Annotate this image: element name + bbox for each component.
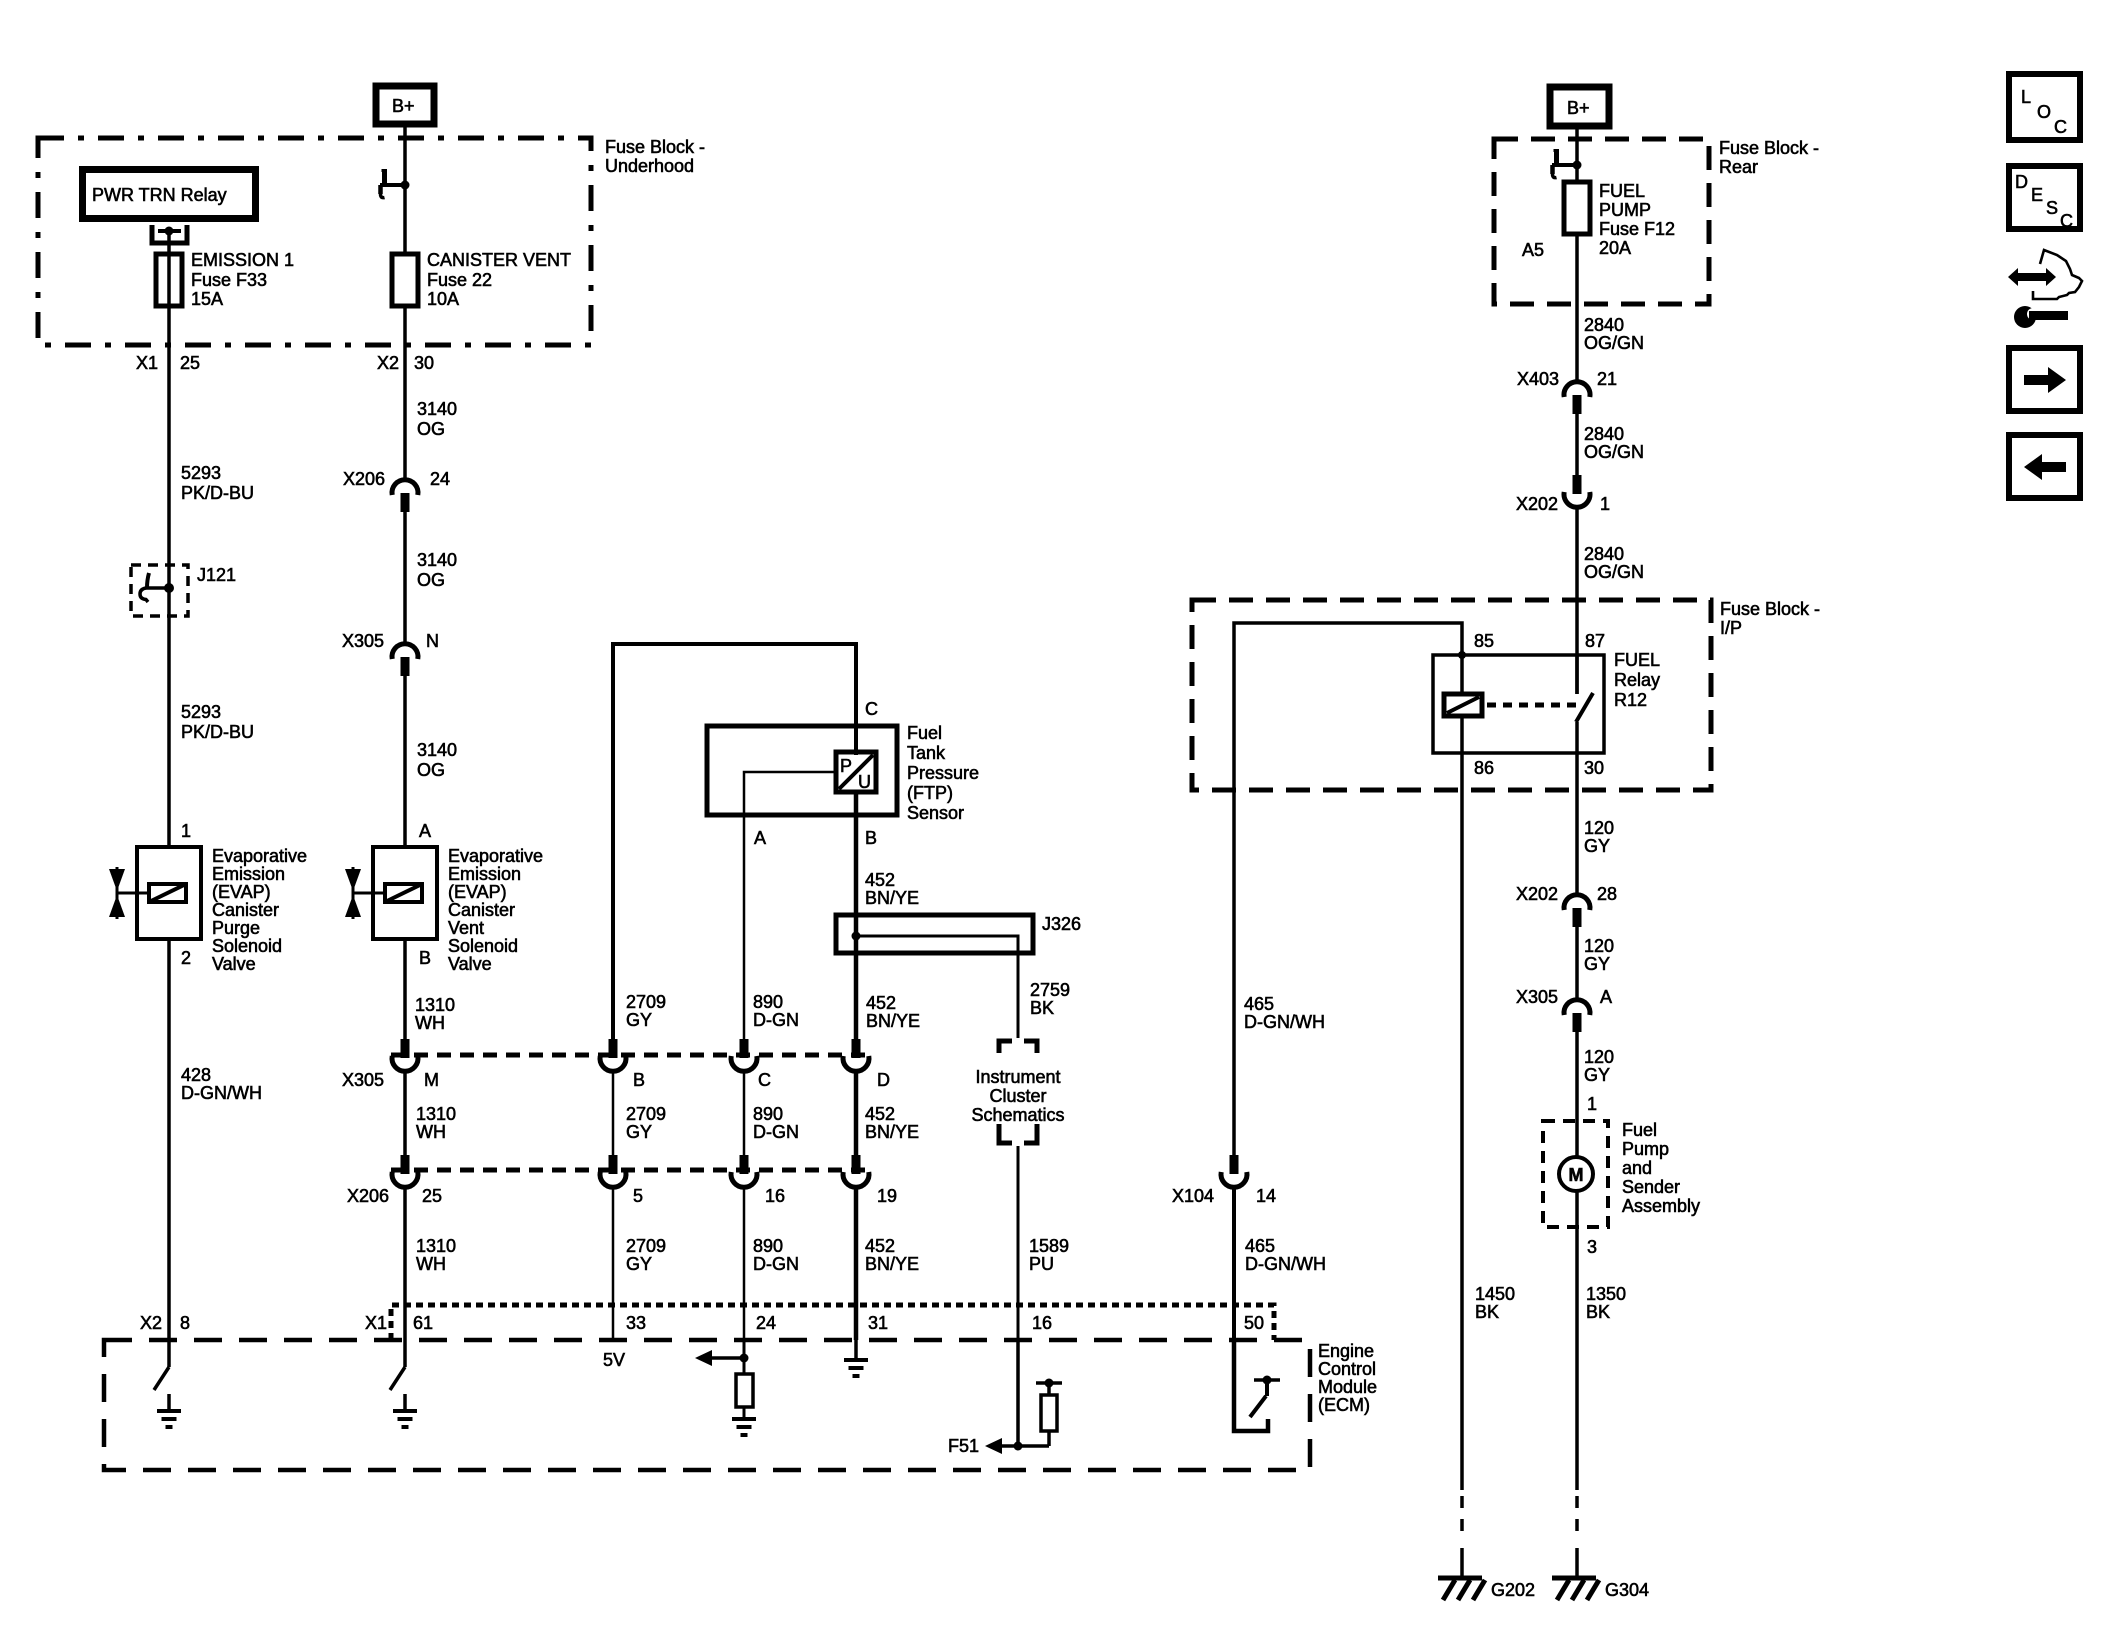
svg-text:120: 120 (1584, 936, 1614, 956)
svg-text:Schematics: Schematics (971, 1105, 1064, 1125)
svg-text:X202: X202 (1516, 494, 1558, 514)
svg-text:Module: Module (1318, 1377, 1377, 1397)
wire 1310 WH segment 1 (403, 939, 407, 1039)
svg-text:Fuel: Fuel (1622, 1120, 1657, 1140)
svg-text:14: 14 (1256, 1186, 1276, 1206)
svg-text:BN/YE: BN/YE (866, 1011, 920, 1031)
svg-text:3140: 3140 (417, 550, 457, 570)
svg-text:X104: X104 (1172, 1186, 1214, 1206)
svg-text:A: A (754, 828, 766, 848)
svg-text:Vent: Vent (448, 918, 484, 938)
svg-text:I/P: I/P (1720, 618, 1742, 638)
svg-text:X2: X2 (140, 1313, 162, 1333)
svg-text:28: 28 (1597, 884, 1617, 904)
legend icon vehicle with data arrow and wrench (2033, 250, 2082, 299)
ECM internal driver pin 8 (154, 1340, 181, 1427)
svg-text:S: S (2046, 198, 2058, 218)
svg-text:CANISTER VENT: CANISTER VENT (427, 250, 571, 270)
svg-text:5: 5 (633, 1186, 643, 1206)
ECM internal circuit at pin 16 with F51 reference (1016, 1340, 1020, 1446)
svg-text:Relay: Relay (1614, 670, 1660, 690)
svg-text:X403: X403 (1517, 369, 1559, 389)
svg-text:B+: B+ (1567, 98, 1590, 118)
svg-text:PU: PU (1029, 1254, 1054, 1274)
svg-text:D: D (2015, 172, 2028, 192)
svg-text:Evaporative: Evaporative (212, 846, 307, 866)
svg-text:Solenoid: Solenoid (212, 936, 282, 956)
svg-text:X206: X206 (347, 1186, 389, 1206)
legend icon DESC (2009, 166, 2080, 229)
svg-text:31: 31 (868, 1313, 888, 1333)
svg-text:33: 33 (626, 1313, 646, 1333)
svg-text:BK: BK (1030, 998, 1054, 1018)
svg-text:C: C (2060, 211, 2073, 231)
svg-text:465: 465 (1244, 994, 1274, 1014)
svg-text:Sensor: Sensor (907, 803, 964, 823)
svg-text:Fuse Block -: Fuse Block - (605, 137, 705, 157)
relay coil (1460, 655, 1464, 694)
off-page connector from instrument cluster (lower bracket) (999, 1124, 1012, 1143)
svg-text:452: 452 (866, 993, 896, 1013)
svg-text:Pressure: Pressure (907, 763, 979, 783)
relay switch blade and pin 87 stub (1575, 655, 1579, 694)
harness connector row X206 (dashed) (391, 1168, 869, 1173)
svg-text:U: U (858, 772, 871, 792)
svg-text:PK/D-BU: PK/D-BU (181, 483, 254, 503)
svg-text:Fuse Block -: Fuse Block - (1720, 599, 1820, 619)
wire 120 GY segment 3 (1575, 1032, 1579, 1121)
svg-text:5V: 5V (603, 1350, 625, 1370)
harness connector row X305 (dashed) (391, 1053, 869, 1058)
svg-text:Cluster: Cluster (989, 1086, 1046, 1106)
wire 2840 OG/GN segment 2 (1575, 414, 1579, 475)
svg-text:WH: WH (416, 1254, 446, 1274)
wire 465 D-GN/WH from relay pin 85 (1234, 623, 1462, 1155)
relay coil-contact link (dashed) (1487, 703, 1580, 708)
svg-text:B: B (633, 1070, 645, 1090)
in-line connector X206 pin 16 (731, 1155, 757, 1187)
svg-text:BN/YE: BN/YE (865, 1122, 919, 1142)
svg-text:Tank: Tank (907, 743, 946, 763)
wire 1450 BK (relay pin 86 to ground) (1460, 753, 1464, 1490)
svg-text:8: 8 (180, 1313, 190, 1333)
svg-text:1310: 1310 (416, 1104, 456, 1124)
svg-text:Fuse Block -: Fuse Block - (1719, 138, 1819, 158)
wire 452 BN/YE segment 4 (854, 1187, 859, 1340)
svg-text:86: 86 (1474, 758, 1494, 778)
svg-text:Instrument: Instrument (975, 1067, 1060, 1087)
wire 452 BN/YE from FTP pin B (854, 792, 859, 1039)
svg-text:120: 120 (1584, 1047, 1614, 1067)
fuse CANISTER VENT Fuse 22 10A (392, 254, 418, 306)
legend icon forward arrow (2009, 348, 2080, 411)
svg-text:1350: 1350 (1586, 1284, 1626, 1304)
wire 890 D-GN from FTP pin A (744, 772, 836, 1039)
svg-text:D-GN/WH: D-GN/WH (1245, 1254, 1326, 1274)
ECM internal driver pin 61 (390, 1340, 417, 1427)
svg-text:D-GN/WH: D-GN/WH (181, 1083, 262, 1103)
resistor (ECM internal, pin 16) (1047, 1431, 1051, 1446)
svg-text:C: C (2054, 117, 2067, 137)
wire 120 GY segment 2 (1575, 927, 1579, 1000)
svg-text:D-GN/WH: D-GN/WH (1244, 1012, 1325, 1032)
in-line connector X305 pin M (392, 1039, 418, 1071)
svg-text:GY: GY (626, 1010, 652, 1030)
svg-text:Fuel: Fuel (907, 723, 942, 743)
svg-text:2840: 2840 (1584, 544, 1624, 564)
svg-text:OG/GN: OG/GN (1584, 333, 1644, 353)
svg-text:Rear: Rear (1719, 157, 1758, 177)
svg-text:87: 87 (1585, 631, 1605, 651)
svg-text:Pump: Pump (1622, 1139, 1669, 1159)
svg-text:1: 1 (1587, 1094, 1597, 1114)
wire 3140 OG segment 3 (403, 676, 407, 847)
svg-text:X2: X2 (377, 353, 399, 373)
svg-text:452: 452 (865, 870, 895, 890)
svg-text:B+: B+ (392, 96, 415, 116)
svg-text:Valve: Valve (212, 954, 256, 974)
svg-text:GY: GY (1584, 836, 1610, 856)
ECM enclosure (104, 1340, 1310, 1470)
svg-text:3: 3 (1587, 1237, 1597, 1257)
svg-text:OG: OG (417, 760, 445, 780)
wire 120 GY segment 1 (1575, 753, 1579, 897)
svg-text:3140: 3140 (417, 740, 457, 760)
svg-text:Sender: Sender (1622, 1177, 1680, 1197)
svg-text:25: 25 (422, 1186, 442, 1206)
svg-text:G304: G304 (1605, 1580, 1649, 1600)
relay PWR TRN Relay (83, 170, 256, 219)
svg-text:Fuse F12: Fuse F12 (1599, 219, 1675, 239)
svg-text:5293: 5293 (181, 463, 221, 483)
svg-text:Purge: Purge (212, 918, 260, 938)
svg-text:FUEL: FUEL (1599, 181, 1645, 201)
svg-text:A: A (419, 821, 431, 841)
svg-text:G202: G202 (1491, 1580, 1535, 1600)
ECM internal ground at pin 31 (854, 1340, 858, 1360)
svg-text:(EVAP): (EVAP) (212, 882, 271, 902)
wire 2759 BK from J326 (1017, 953, 1020, 1038)
svg-text:1589: 1589 (1029, 1236, 1069, 1256)
svg-text:BN/YE: BN/YE (865, 1254, 919, 1274)
svg-text:21: 21 (1597, 369, 1617, 389)
svg-text:PUMP: PUMP (1599, 200, 1651, 220)
wire 1310 WH segment 2 (403, 1071, 407, 1155)
ground G304 (1552, 1578, 1599, 1600)
ground G202 (1438, 1578, 1485, 1600)
wire 890 D-GN segment 3 (743, 1187, 746, 1340)
svg-text:C: C (865, 699, 878, 719)
wire relay pin 30 (1575, 722, 1579, 753)
svg-text:3140: 3140 (417, 399, 457, 419)
svg-text:10A: 10A (427, 289, 459, 309)
svg-text:OG: OG (417, 419, 445, 439)
svg-text:OG/GN: OG/GN (1584, 562, 1644, 582)
svg-text:25: 25 (180, 353, 200, 373)
svg-text:Evaporative: Evaporative (448, 846, 543, 866)
svg-text:(ECM): (ECM) (1318, 1395, 1370, 1415)
legend icon back arrow (2009, 435, 2080, 498)
svg-text:Canister: Canister (212, 900, 279, 920)
svg-text:Emission: Emission (448, 864, 521, 884)
svg-text:GY: GY (1584, 954, 1610, 974)
power node B+ (left) (376, 86, 434, 124)
wire 428 D-GN/WH (167, 939, 171, 1340)
svg-text:Assembly: Assembly (1622, 1196, 1700, 1216)
bus tap clip at CANISTER VENT fuse (380, 171, 410, 198)
in-line connector X202 pin 1 (1564, 475, 1590, 507)
off-page connector to instrument cluster (upper bracket) (999, 1041, 1012, 1053)
in-line connector X305 pin B (600, 1039, 626, 1071)
wire 5293 PK/D-BU (167, 306, 171, 847)
svg-text:(EVAP): (EVAP) (448, 882, 507, 902)
motor M (fuel pump) (1575, 1121, 1579, 1157)
svg-text:X202: X202 (1516, 884, 1558, 904)
bus tap clip at FUEL PUMP fuse (1552, 151, 1582, 178)
power node B+ (right) (1550, 87, 1609, 126)
svg-text:BK: BK (1475, 1302, 1499, 1322)
svg-text:2: 2 (181, 948, 191, 968)
svg-text:Control: Control (1318, 1359, 1376, 1379)
svg-text:452: 452 (865, 1236, 895, 1256)
svg-text:D: D (877, 1070, 890, 1090)
svg-text:D-GN: D-GN (753, 1122, 799, 1142)
svg-text:24: 24 (756, 1313, 776, 1333)
svg-text:WH: WH (415, 1013, 445, 1033)
svg-text:20A: 20A (1599, 238, 1631, 258)
in-line connector X305 pin N (392, 644, 418, 676)
svg-text:BK: BK (1586, 1302, 1610, 1322)
svg-text:B: B (419, 948, 431, 968)
svg-text:O: O (2037, 102, 2051, 122)
svg-text:J121: J121 (197, 565, 236, 585)
ground (ECM internal, pin 24 resistor) (732, 1419, 756, 1435)
svg-text:2840: 2840 (1584, 315, 1624, 335)
sensor Fuel Tank Pressure (FTP) box (707, 726, 897, 815)
svg-text:19: 19 (877, 1186, 897, 1206)
svg-text:24: 24 (430, 469, 450, 489)
svg-text:X305: X305 (1516, 987, 1558, 1007)
svg-text:X1: X1 (136, 353, 158, 373)
fuse EMISSION 1 Fuse F33 15A (167, 256, 171, 306)
wire B+ to FUEL PUMP fuse (1575, 129, 1579, 184)
ECM connector row (dotted) (391, 1305, 1274, 1340)
svg-text:890: 890 (753, 992, 783, 1012)
svg-text:BN/YE: BN/YE (865, 888, 919, 908)
in-line connector X206 pin 5 (600, 1155, 626, 1187)
svg-text:2709: 2709 (626, 1104, 666, 1124)
svg-text:120: 120 (1584, 818, 1614, 838)
svg-text:A: A (1600, 987, 1612, 1007)
svg-text:465: 465 (1245, 1236, 1275, 1256)
wire 2840 OG/GN segment 3 (1575, 507, 1579, 694)
in-line connector X403 pin 21 (1564, 382, 1590, 414)
svg-text:GY: GY (1584, 1065, 1610, 1085)
valve EVAP Canister Purge Solenoid (109, 847, 201, 939)
svg-text:Canister: Canister (448, 900, 515, 920)
svg-text:452: 452 (865, 1104, 895, 1124)
wire 2709 GY segment 2 (612, 1071, 615, 1155)
svg-text:Solenoid: Solenoid (448, 936, 518, 956)
svg-text:A5: A5 (1522, 240, 1544, 260)
in-line connector X305 pin C (731, 1039, 757, 1071)
svg-text:GY: GY (626, 1122, 652, 1142)
svg-text:D-GN: D-GN (753, 1010, 799, 1030)
svg-text:15A: 15A (191, 289, 223, 309)
svg-text:85: 85 (1474, 631, 1494, 651)
svg-text:Engine: Engine (1318, 1341, 1374, 1361)
fuse block - rear enclosure (1494, 139, 1709, 304)
svg-text:2709: 2709 (626, 992, 666, 1012)
svg-text:(FTP): (FTP) (907, 783, 953, 803)
svg-text:Valve: Valve (448, 954, 492, 974)
svg-text:1450: 1450 (1475, 1284, 1515, 1304)
PWR TRN relay terminal bracket (152, 225, 187, 243)
fuse FUEL PUMP Fuse F12 20A (1564, 182, 1590, 234)
svg-text:X1: X1 (365, 1313, 387, 1333)
svg-text:Emission: Emission (212, 864, 285, 884)
svg-text:50: 50 (1244, 1313, 1264, 1333)
svg-text:OG/GN: OG/GN (1584, 442, 1644, 462)
svg-text:X305: X305 (342, 631, 384, 651)
fuse block - underhood enclosure (38, 138, 591, 345)
fuel pump and sender assembly enclosure (1543, 1121, 1608, 1227)
svg-text:B: B (865, 828, 877, 848)
svg-text:61: 61 (413, 1313, 433, 1333)
svg-text:EMISSION 1: EMISSION 1 (191, 250, 294, 270)
svg-text:M: M (424, 1070, 439, 1090)
ECM internal pull-up at pin 24 (743, 1340, 746, 1374)
ECM internal relay driver at pin 50 (1234, 1340, 1268, 1431)
svg-text:1310: 1310 (415, 995, 455, 1015)
wire 1310 WH segment 3 (403, 1187, 407, 1340)
svg-text:30: 30 (414, 353, 434, 373)
svg-text:X305: X305 (342, 1070, 384, 1090)
svg-text:J326: J326 (1042, 914, 1081, 934)
svg-text:2759: 2759 (1030, 980, 1070, 1000)
legend icon LOC (2009, 74, 2080, 140)
wire 890 D-GN segment 2 (743, 1071, 746, 1155)
svg-text:P: P (840, 756, 852, 776)
svg-text:X206: X206 (343, 469, 385, 489)
in-line connector X206 pin 19 (843, 1155, 869, 1187)
svg-text:R12: R12 (1614, 690, 1647, 710)
svg-text:16: 16 (765, 1186, 785, 1206)
wire 3140 OG segment 1 (403, 306, 407, 480)
svg-text:L: L (2021, 87, 2031, 107)
wire 1589 PU (1017, 1146, 1020, 1340)
svg-text:PK/D-BU: PK/D-BU (181, 722, 254, 742)
splice J121 (131, 565, 188, 616)
relay FUEL Relay R12 (1433, 655, 1604, 753)
FTP sensor element P/U (836, 752, 876, 792)
svg-text:FUEL: FUEL (1614, 650, 1660, 670)
svg-text:E: E (2031, 185, 2043, 205)
wire 2709 GY top run from FTP pin C (613, 644, 856, 1039)
wire 452 BN/YE segment 3 (854, 1071, 859, 1155)
svg-text:Fuse 22: Fuse 22 (427, 270, 492, 290)
svg-text:D-GN: D-GN (753, 1254, 799, 1274)
svg-text:M: M (1569, 1165, 1584, 1185)
wire 465 D-GN/WH segment 2 (1232, 1187, 1236, 1340)
svg-text:2709: 2709 (626, 1236, 666, 1256)
svg-text:Underhood: Underhood (605, 156, 694, 176)
valve EVAP Canister Vent Solenoid (345, 847, 437, 939)
wire 2709 GY segment 3 (612, 1187, 615, 1340)
svg-text:WH: WH (416, 1122, 446, 1142)
wire 3140 OG segment 2 (403, 512, 407, 645)
in-line connector X202 pin 28 (1564, 895, 1590, 927)
svg-text:1: 1 (181, 821, 191, 841)
svg-text:16: 16 (1032, 1313, 1052, 1333)
svg-text:F51: F51 (948, 1436, 979, 1456)
svg-text:2840: 2840 (1584, 424, 1624, 444)
splice pack J326 (836, 915, 1033, 953)
in-line connector X305 pin D (843, 1039, 869, 1071)
in-line connector X206 pin 24 (392, 480, 418, 512)
wire 1350 BK (1575, 1227, 1579, 1490)
wire B+ to CANISTER VENT fuse (403, 126, 407, 256)
svg-text:890: 890 (753, 1236, 783, 1256)
fuse block - I/P enclosure (1192, 600, 1711, 790)
svg-text:1310: 1310 (416, 1236, 456, 1256)
svg-text:OG: OG (417, 570, 445, 590)
svg-text:C: C (758, 1070, 771, 1090)
in-line connector X206 pin 25 (392, 1155, 418, 1187)
svg-text:Fuse F33: Fuse F33 (191, 270, 267, 290)
svg-text:5293: 5293 (181, 702, 221, 722)
wire 2840 OG/GN segment 1 (1575, 304, 1579, 383)
svg-text:PWR TRN Relay: PWR TRN Relay (92, 185, 227, 205)
wire 465 D-GN/WH at X104 (1221, 1155, 1247, 1187)
svg-text:428: 428 (181, 1065, 211, 1085)
svg-text:N: N (426, 631, 439, 651)
svg-text:and: and (1622, 1158, 1652, 1178)
in-line connector X305 pin A (1564, 1000, 1590, 1032)
wire relay to EMISSION 1 fuse (167, 233, 171, 256)
svg-text:1: 1 (1600, 494, 1610, 514)
svg-text:890: 890 (753, 1104, 783, 1124)
svg-text:30: 30 (1584, 758, 1604, 778)
svg-text:GY: GY (626, 1254, 652, 1274)
wire FTP pin C stub (854, 726, 858, 755)
